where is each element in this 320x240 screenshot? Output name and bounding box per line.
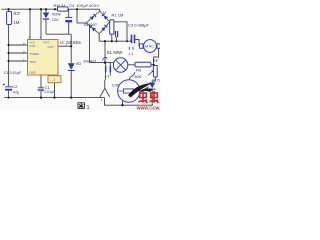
resistor R1 xyxy=(110,20,114,35)
wire pin4 drop xyxy=(40,9,42,39)
capacitor C2 xyxy=(3,83,13,90)
wire OUT stub pin3 xyxy=(58,45,71,47)
wire top +12V rail xyxy=(2,8,100,10)
wire snubber bus y41 xyxy=(99,40,131,42)
wire stub pin2 xyxy=(9,52,28,54)
watermark bug char 1 xyxy=(138,91,147,103)
wire contact ticks xyxy=(106,63,111,80)
wire pin8 drop xyxy=(29,9,31,39)
capacitor C1 xyxy=(38,87,44,91)
wire Y junction to ground xyxy=(100,80,110,97)
wire x77 drop to bridge left xyxy=(77,9,86,23)
AC plug M xyxy=(140,40,161,53)
wire bottom right return xyxy=(105,98,154,106)
wire VD column xyxy=(70,34,72,97)
wire bridge top tick xyxy=(99,9,101,12)
wire CdS bottom tick xyxy=(122,100,124,105)
wire C3 left approach xyxy=(130,40,132,42)
thyristor VS xyxy=(144,83,156,90)
wire thyristor cathode xyxy=(151,90,153,106)
wire lamp to Rd xyxy=(128,64,135,66)
wire J column xyxy=(54,75,56,98)
wire Rd to RP junction xyxy=(151,64,154,66)
bridge diode D2 xyxy=(101,13,108,20)
wire x105 drop to lamp row xyxy=(104,41,106,62)
wire lamp feed from bridge left xyxy=(90,25,114,62)
fuse squiggle xyxy=(103,57,107,60)
watermark bug char 2 xyxy=(149,91,158,103)
IC U1 NE555 block xyxy=(28,40,59,76)
bridge rectifier U edges xyxy=(86,11,109,34)
bridge diode D3 xyxy=(89,25,96,32)
node dots xyxy=(8,8,155,106)
wire bridge right to x127 drop xyxy=(110,22,127,41)
wire C4 ticks xyxy=(68,9,70,34)
resistor R4 xyxy=(58,7,69,11)
wire C3 right to plug xyxy=(135,40,139,47)
watermark swoosh xyxy=(128,83,152,98)
wire C2 bottom lead xyxy=(8,91,10,98)
wire R1 bottom lead xyxy=(111,34,113,41)
wire zener column xyxy=(45,9,47,34)
potentiometer RP xyxy=(148,66,157,78)
bridge diode D4 xyxy=(101,24,108,31)
wire stub pin7 xyxy=(9,60,28,62)
capacitor C5 bars xyxy=(115,31,118,41)
capacitor C3 xyxy=(131,35,136,44)
wire C1 column xyxy=(40,75,42,98)
contact ticks near J-1 label xyxy=(129,47,133,50)
lamp EL xyxy=(113,58,127,72)
figure caption 图 1 xyxy=(78,103,84,109)
wire plug return xyxy=(154,48,159,65)
wire stub pin6 xyxy=(9,44,28,46)
relay contact J-1 bars xyxy=(105,66,111,72)
wire R3 column xyxy=(8,9,10,86)
wire zener-cap bottom bus xyxy=(46,33,71,35)
resistor Rd xyxy=(135,62,151,67)
resistor R3 xyxy=(7,12,12,25)
wire bridge bottom drop xyxy=(98,34,100,41)
relay coil J xyxy=(48,76,61,83)
capacitor C4 xyxy=(65,17,72,23)
photoresistor CdS xyxy=(118,72,140,102)
wire RP bottom to thyristor xyxy=(152,77,155,82)
labels xyxy=(4,3,162,102)
bridge diode D1 xyxy=(90,13,97,20)
zener diode VDW 12V xyxy=(43,13,49,20)
diode VD xyxy=(68,63,75,71)
wire bottom ground rail xyxy=(4,97,105,99)
